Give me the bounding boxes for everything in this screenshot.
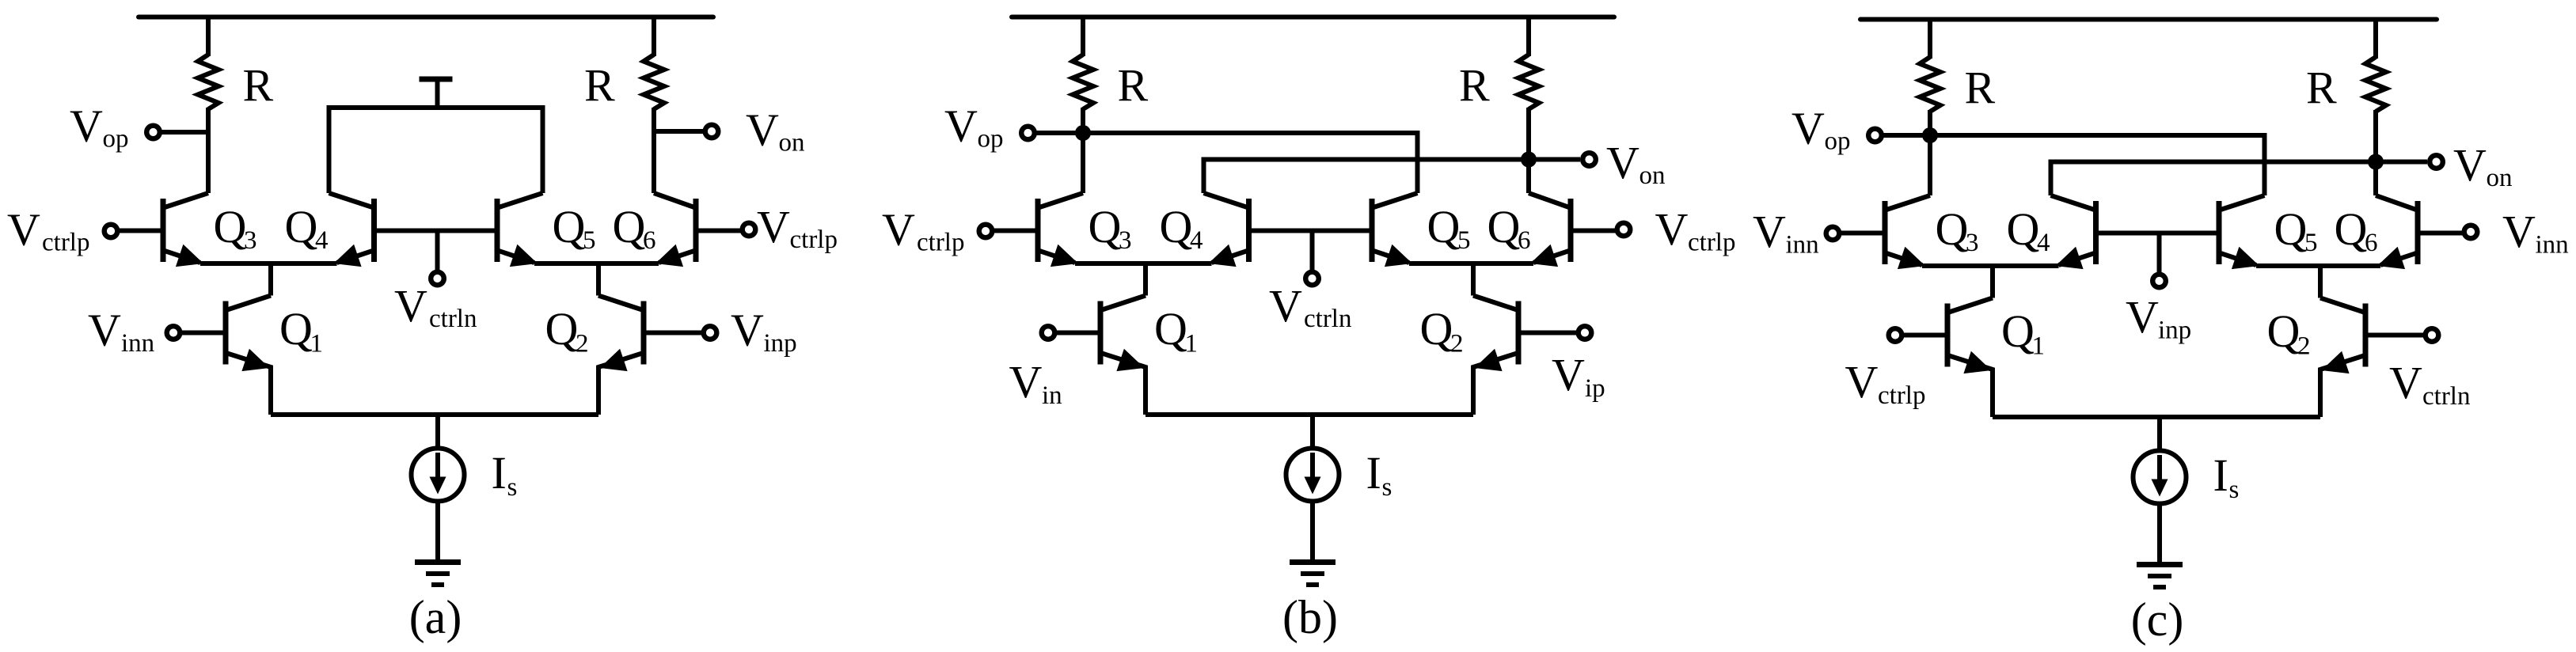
terminal Vinp (a) xyxy=(704,326,717,339)
wire rail to R right (c) xyxy=(2373,20,2378,59)
svg-text:I: I xyxy=(492,447,507,498)
wire rail to R right (a) xyxy=(652,17,656,57)
label Is (a) xyxy=(492,447,518,502)
transistor Q4 (b) xyxy=(1204,193,1249,267)
svg-text:Q: Q xyxy=(2335,203,2368,255)
svg-text:ctrln: ctrln xyxy=(1304,305,1351,333)
terminal Vctrlp (a) xyxy=(104,225,118,238)
wire R right to Q6 collector (c) xyxy=(2373,110,2378,195)
terminal Vop (b) xyxy=(1021,127,1035,140)
wire rail to R left (a) xyxy=(206,17,211,57)
wire Q6 base lead (c) xyxy=(2418,231,2463,236)
svg-text:I: I xyxy=(1366,447,1381,498)
svg-text:Q: Q xyxy=(1420,303,1453,354)
label Vinn (c) xyxy=(1753,206,1819,260)
current source Is (a) xyxy=(412,449,465,502)
node Von junction (b) xyxy=(1521,152,1537,168)
wire current source to ground (a) xyxy=(435,502,440,563)
current source Is (b) xyxy=(1286,449,1339,502)
svg-text:5: 5 xyxy=(2304,229,2318,257)
wire rail to R left (c) xyxy=(1928,20,1932,59)
wire Q2 base lead (c) xyxy=(2365,333,2423,338)
wire emitter bus to Q1 collector (c) xyxy=(1990,266,1995,298)
transistor Q6 (c) xyxy=(2376,195,2418,269)
svg-text:V: V xyxy=(1845,356,1879,407)
wire Von stub (c) xyxy=(2376,160,2427,165)
svg-text:(a): (a) xyxy=(409,591,462,643)
label Vctrlp right (b) xyxy=(1655,203,1736,257)
svg-text:6: 6 xyxy=(2365,229,2378,257)
wire Q4-Q5 base bus (c) xyxy=(2096,231,2220,236)
wire emitter bus to Q2 collector (c) xyxy=(2318,266,2323,298)
svg-text:R: R xyxy=(584,60,615,112)
svg-text:2: 2 xyxy=(2297,332,2311,361)
label Q2 (c) xyxy=(2267,305,2311,361)
terminal Vinn (c) xyxy=(1826,227,1840,241)
svg-text:Q: Q xyxy=(2267,305,2301,357)
svg-text:6: 6 xyxy=(643,226,656,255)
terminal Vctrlp (c) xyxy=(1889,328,1902,342)
wire Q4/Q5 collector bus (a) xyxy=(329,108,543,193)
label Vinn (a) xyxy=(88,305,154,358)
label Vctrlp (b) xyxy=(882,204,964,257)
svg-text:2: 2 xyxy=(1450,330,1464,358)
label Vinn right (c) xyxy=(2502,206,2569,260)
wire Vop stub (c) xyxy=(1883,133,1930,138)
resistor R right (b) xyxy=(1518,55,1539,109)
svg-text:(c): (c) xyxy=(2131,593,2184,646)
label Q3 (b) xyxy=(1089,201,1132,255)
label Q1 (c) xyxy=(2001,305,2045,361)
wire tail to current source (c) xyxy=(2157,417,2162,453)
terminal Vctrlp (b) xyxy=(979,225,993,238)
svg-text:V: V xyxy=(70,100,103,151)
svg-text:V: V xyxy=(7,204,40,256)
svg-text:ctrlp: ctrlp xyxy=(917,229,964,257)
label Von (c) xyxy=(2453,139,2513,192)
svg-text:op: op xyxy=(1825,127,1851,156)
svg-text:V: V xyxy=(757,201,790,252)
terminal Vip (b) xyxy=(1579,326,1592,339)
label Is (b) xyxy=(1366,447,1392,502)
wire emitter bus to Q1 collector (a) xyxy=(268,263,273,296)
svg-text:1: 1 xyxy=(1185,330,1199,358)
svg-text:ctrlp: ctrlp xyxy=(1688,229,1735,257)
svg-text:ctrlp: ctrlp xyxy=(790,226,838,254)
svg-text:V: V xyxy=(882,204,915,256)
transistor Q2 (a) xyxy=(598,296,644,415)
svg-text:V: V xyxy=(746,104,779,156)
svg-text:inp: inp xyxy=(2158,317,2191,345)
terminal Vctrlp right (b) xyxy=(1617,223,1631,237)
svg-text:V: V xyxy=(2389,357,2422,408)
terminal Vctrln (a) xyxy=(431,272,444,286)
svg-text:4: 4 xyxy=(1190,226,1203,255)
power rail (top) (b) xyxy=(1012,15,1614,20)
svg-text:V: V xyxy=(1552,349,1585,400)
svg-text:R: R xyxy=(1965,63,1996,114)
power rail (top) (a) xyxy=(139,15,713,20)
wire Q4-Q5 base bus (b) xyxy=(1249,229,1373,233)
svg-text:Q: Q xyxy=(285,201,318,252)
svg-text:Q: Q xyxy=(1160,201,1193,252)
wire center control drop (a) xyxy=(435,231,440,271)
svg-text:5: 5 xyxy=(1457,226,1471,255)
ground (c) xyxy=(2137,565,2183,588)
svg-text:Q: Q xyxy=(1936,203,1969,255)
terminal Von (c) xyxy=(2430,155,2443,169)
svg-text:op: op xyxy=(978,125,1004,154)
label Q3 (a) xyxy=(214,201,257,255)
svg-text:Q: Q xyxy=(2274,203,2308,255)
label Q4 (b) xyxy=(1160,201,1203,255)
wire Q3-Q4 emitter bus (c) xyxy=(1922,263,2059,268)
svg-text:3: 3 xyxy=(1119,226,1132,255)
wire tail bus (b) xyxy=(1146,412,1473,417)
svg-text:2: 2 xyxy=(576,330,589,358)
svg-text:Q: Q xyxy=(279,303,313,354)
svg-text:inn: inn xyxy=(121,329,154,358)
label Q4 (c) xyxy=(2007,203,2050,257)
resistor R left (b) xyxy=(1073,55,1093,109)
wire emitter bus to Q2 collector (b) xyxy=(1471,263,1476,296)
transistor Q2 (b) xyxy=(1473,296,1518,415)
svg-text:s: s xyxy=(1382,473,1392,502)
label Q1 (a) xyxy=(279,303,323,358)
label Q2 (a) xyxy=(545,303,589,358)
svg-text:s: s xyxy=(507,473,518,502)
transistor Q4 (c) xyxy=(2051,195,2096,269)
terminal Vin (b) xyxy=(1042,326,1055,339)
svg-text:V: V xyxy=(1753,206,1786,257)
transistor Q3 (c) xyxy=(1885,195,1930,269)
label Q5 (c) xyxy=(2274,203,2318,257)
svg-text:6: 6 xyxy=(1518,226,1531,255)
transistor Q5 (c) xyxy=(2219,195,2265,269)
svg-text:V: V xyxy=(88,305,121,356)
ground (a) xyxy=(415,563,461,586)
label Vctrlp (c) xyxy=(1845,356,1926,410)
node Von junction (c) xyxy=(2368,154,2384,170)
svg-text:V: V xyxy=(2126,291,2159,343)
svg-text:Q: Q xyxy=(2001,305,2035,357)
svg-text:Q: Q xyxy=(1487,201,1521,252)
svg-text:4: 4 xyxy=(2037,229,2050,257)
svg-text:in: in xyxy=(1042,381,1062,410)
wire R left to Q3 collector (a) xyxy=(206,108,211,193)
resistor R left (c) xyxy=(1920,57,1940,112)
wire Q3 base lead (b) xyxy=(992,229,1038,233)
transistor Q1 (b) xyxy=(1100,296,1146,415)
svg-text:3: 3 xyxy=(244,226,257,255)
wire Q1 base lead (b) xyxy=(1055,331,1100,335)
terminal Vinp (c) xyxy=(2152,275,2166,288)
wire Q5-Q6 emitter bus (b) xyxy=(1409,261,1533,266)
wire Vop to Q5 collector (cross wire) (b) xyxy=(1083,133,1418,193)
transistor Q3 (b) xyxy=(1038,193,1083,267)
svg-text:(b): (b) xyxy=(1282,591,1338,643)
svg-text:R: R xyxy=(2306,63,2337,114)
wire tail to current source (b) xyxy=(1310,415,1315,450)
wire center control drop (b) xyxy=(1310,231,1315,271)
wire tail bus (c) xyxy=(1993,415,2320,419)
label Q1 (b) xyxy=(1154,303,1198,358)
terminal Vctrln (c) xyxy=(2426,328,2439,342)
svg-text:5: 5 xyxy=(583,226,596,255)
transistor Q5 (b) xyxy=(1372,193,1418,267)
svg-text:ctrln: ctrln xyxy=(2422,382,2470,411)
terminal Vctrln (b) xyxy=(1305,272,1319,286)
label Is (c) xyxy=(2213,449,2240,504)
transistor Q1 (a) xyxy=(226,296,271,415)
label Vinp (c) xyxy=(2126,291,2191,345)
terminal Vctrlp right (a) xyxy=(743,223,756,237)
label Vop (b) xyxy=(944,100,1004,153)
svg-text:V: V xyxy=(1009,356,1043,407)
terminal Vop (a) xyxy=(146,126,160,139)
svg-text:inn: inn xyxy=(1786,231,1819,260)
label Vctrln (c) xyxy=(2389,357,2470,411)
transistor Q1 (c) xyxy=(1947,298,1993,418)
label Q6 (b) xyxy=(1487,201,1531,255)
svg-text:s: s xyxy=(2229,476,2240,504)
terminal Vop (c) xyxy=(1868,129,1882,142)
label Von (b) xyxy=(1606,137,1666,190)
svg-text:V: V xyxy=(731,305,764,356)
svg-text:V: V xyxy=(944,100,978,151)
wire Q1 base lead (a) xyxy=(180,331,226,335)
svg-text:V: V xyxy=(394,280,427,332)
svg-text:V: V xyxy=(1791,102,1825,154)
wire R left to Q3 collector (c) xyxy=(1928,110,1932,195)
svg-text:R: R xyxy=(1459,60,1490,112)
svg-text:ctrlp: ctrlp xyxy=(42,229,89,257)
wire Q4-Q5 base bus (a) xyxy=(374,229,498,233)
label Vop (c) xyxy=(1791,102,1851,155)
transistor Q4 (a) xyxy=(329,193,374,267)
label Vctrln (b) xyxy=(1269,280,1351,333)
transistor Q6 (a) xyxy=(654,193,696,267)
label Vctrlp right (a) xyxy=(757,201,838,254)
wire current source to ground (c) xyxy=(2157,504,2162,565)
wire Vop stub (a) xyxy=(161,130,208,135)
wire R right to Q6 collector (a) xyxy=(652,108,656,193)
svg-text:inn: inn xyxy=(2536,231,2569,260)
label Q4 (a) xyxy=(285,201,329,255)
wire Q3 base lead (c) xyxy=(1839,231,1885,236)
label Vctrlp (a) xyxy=(7,204,89,257)
svg-text:1: 1 xyxy=(2032,332,2046,361)
wire Q3-Q4 emitter bus (a) xyxy=(200,261,337,266)
wire Q3 base lead (a) xyxy=(117,229,163,233)
transistor Q2 (c) xyxy=(2320,298,2365,418)
svg-text:Q: Q xyxy=(2007,203,2040,255)
supply tap T (a) xyxy=(420,77,453,108)
transistor Q3 (a) xyxy=(163,193,208,267)
label Q5 (a) xyxy=(553,201,596,255)
label Q5 (b) xyxy=(1427,201,1471,255)
wire Von stub (a) xyxy=(654,129,703,134)
resistor R right (c) xyxy=(2365,57,2386,112)
label Q6 (a) xyxy=(613,201,656,255)
wire Q1 base lead (c) xyxy=(1902,333,1947,338)
svg-text:R: R xyxy=(1118,60,1149,112)
ground (b) xyxy=(1290,563,1335,586)
svg-text:Q: Q xyxy=(214,201,247,252)
wire Q3-Q4 emitter bus (b) xyxy=(1075,261,1212,266)
wire Q4 collector to Von (cross wire) (c) xyxy=(2051,162,2377,196)
wire R left to Q3 collector (b) xyxy=(1081,108,1085,193)
svg-text:Q: Q xyxy=(613,201,646,252)
svg-text:Q: Q xyxy=(1089,201,1122,252)
svg-text:3: 3 xyxy=(1966,229,1979,257)
wire center control drop (c) xyxy=(2157,233,2162,274)
svg-text:V: V xyxy=(1655,203,1689,255)
svg-text:1: 1 xyxy=(310,330,324,358)
wire Q5-Q6 emitter bus (c) xyxy=(2256,263,2380,268)
svg-text:V: V xyxy=(1269,280,1302,332)
terminal Vinn right (c) xyxy=(2464,226,2478,239)
svg-text:ctrln: ctrln xyxy=(429,305,477,333)
svg-text:V: V xyxy=(1606,137,1639,188)
label Vctrln (a) xyxy=(394,280,477,333)
wire Q5-Q6 emitter bus (a) xyxy=(534,261,659,266)
resistor R left (a) xyxy=(198,55,218,109)
wire Q6 base lead (b) xyxy=(1571,229,1616,233)
wire Q2 base lead (b) xyxy=(1518,331,1576,335)
terminal Von (b) xyxy=(1582,153,1596,166)
terminal Vinn (a) xyxy=(167,326,180,339)
label Q3 (c) xyxy=(1936,203,1979,257)
wire current source to ground (b) xyxy=(1310,502,1315,563)
label Vinp (a) xyxy=(731,305,797,358)
wire emitter bus to Q2 collector (a) xyxy=(596,263,601,296)
svg-text:Q: Q xyxy=(1154,303,1187,354)
wire Vop to Q5 collector (cross wire) (c) xyxy=(1930,135,2265,195)
svg-text:inp: inp xyxy=(764,329,797,358)
transistor Q6 (b) xyxy=(1529,193,1571,267)
wire rail to R right (b) xyxy=(1526,17,1531,57)
svg-text:Q: Q xyxy=(545,303,579,354)
current source Is (c) xyxy=(2133,451,2187,504)
label Von (a) xyxy=(746,104,805,157)
label Vip (b) xyxy=(1552,349,1605,403)
svg-text:on: on xyxy=(2487,164,2513,192)
node Vop junction (c) xyxy=(1922,127,1938,143)
wire R right to Q6 collector (b) xyxy=(1526,108,1531,193)
transistor Q5 (a) xyxy=(497,193,543,267)
svg-text:4: 4 xyxy=(315,226,329,255)
label Q6 (c) xyxy=(2335,203,2378,257)
svg-text:V: V xyxy=(2453,139,2487,191)
svg-text:on: on xyxy=(779,129,805,157)
terminal Von (a) xyxy=(705,125,719,138)
wire rail to R left (b) xyxy=(1081,17,1085,57)
node Vop junction (b) xyxy=(1075,125,1091,141)
wire Von stub (b) xyxy=(1529,157,1580,162)
power rail (top) (c) xyxy=(1860,17,2437,22)
wire tail bus (a) xyxy=(271,412,598,417)
label Q2 (b) xyxy=(1420,303,1464,358)
resistor R right (a) xyxy=(644,55,664,109)
wire Q4 collector to Von (cross wire) (b) xyxy=(1204,160,1529,194)
label Vop (a) xyxy=(70,100,129,153)
svg-text:Q: Q xyxy=(553,201,586,252)
svg-text:Q: Q xyxy=(1427,201,1461,252)
wire Q6 base lead (a) xyxy=(696,229,741,233)
svg-text:ctrlp: ctrlp xyxy=(1878,381,1925,410)
svg-text:I: I xyxy=(2213,449,2228,501)
wire tail to current source (a) xyxy=(435,415,440,450)
wire Q2 base lead (a) xyxy=(644,331,701,335)
svg-text:R: R xyxy=(243,60,274,112)
wire Vop stub (b) xyxy=(1036,131,1083,135)
svg-text:op: op xyxy=(103,125,129,154)
wire emitter bus to Q1 collector (b) xyxy=(1143,263,1148,296)
svg-text:ip: ip xyxy=(1585,374,1605,403)
svg-text:on: on xyxy=(1639,161,1666,190)
label Vin (b) xyxy=(1009,356,1062,410)
svg-text:V: V xyxy=(2502,206,2536,257)
